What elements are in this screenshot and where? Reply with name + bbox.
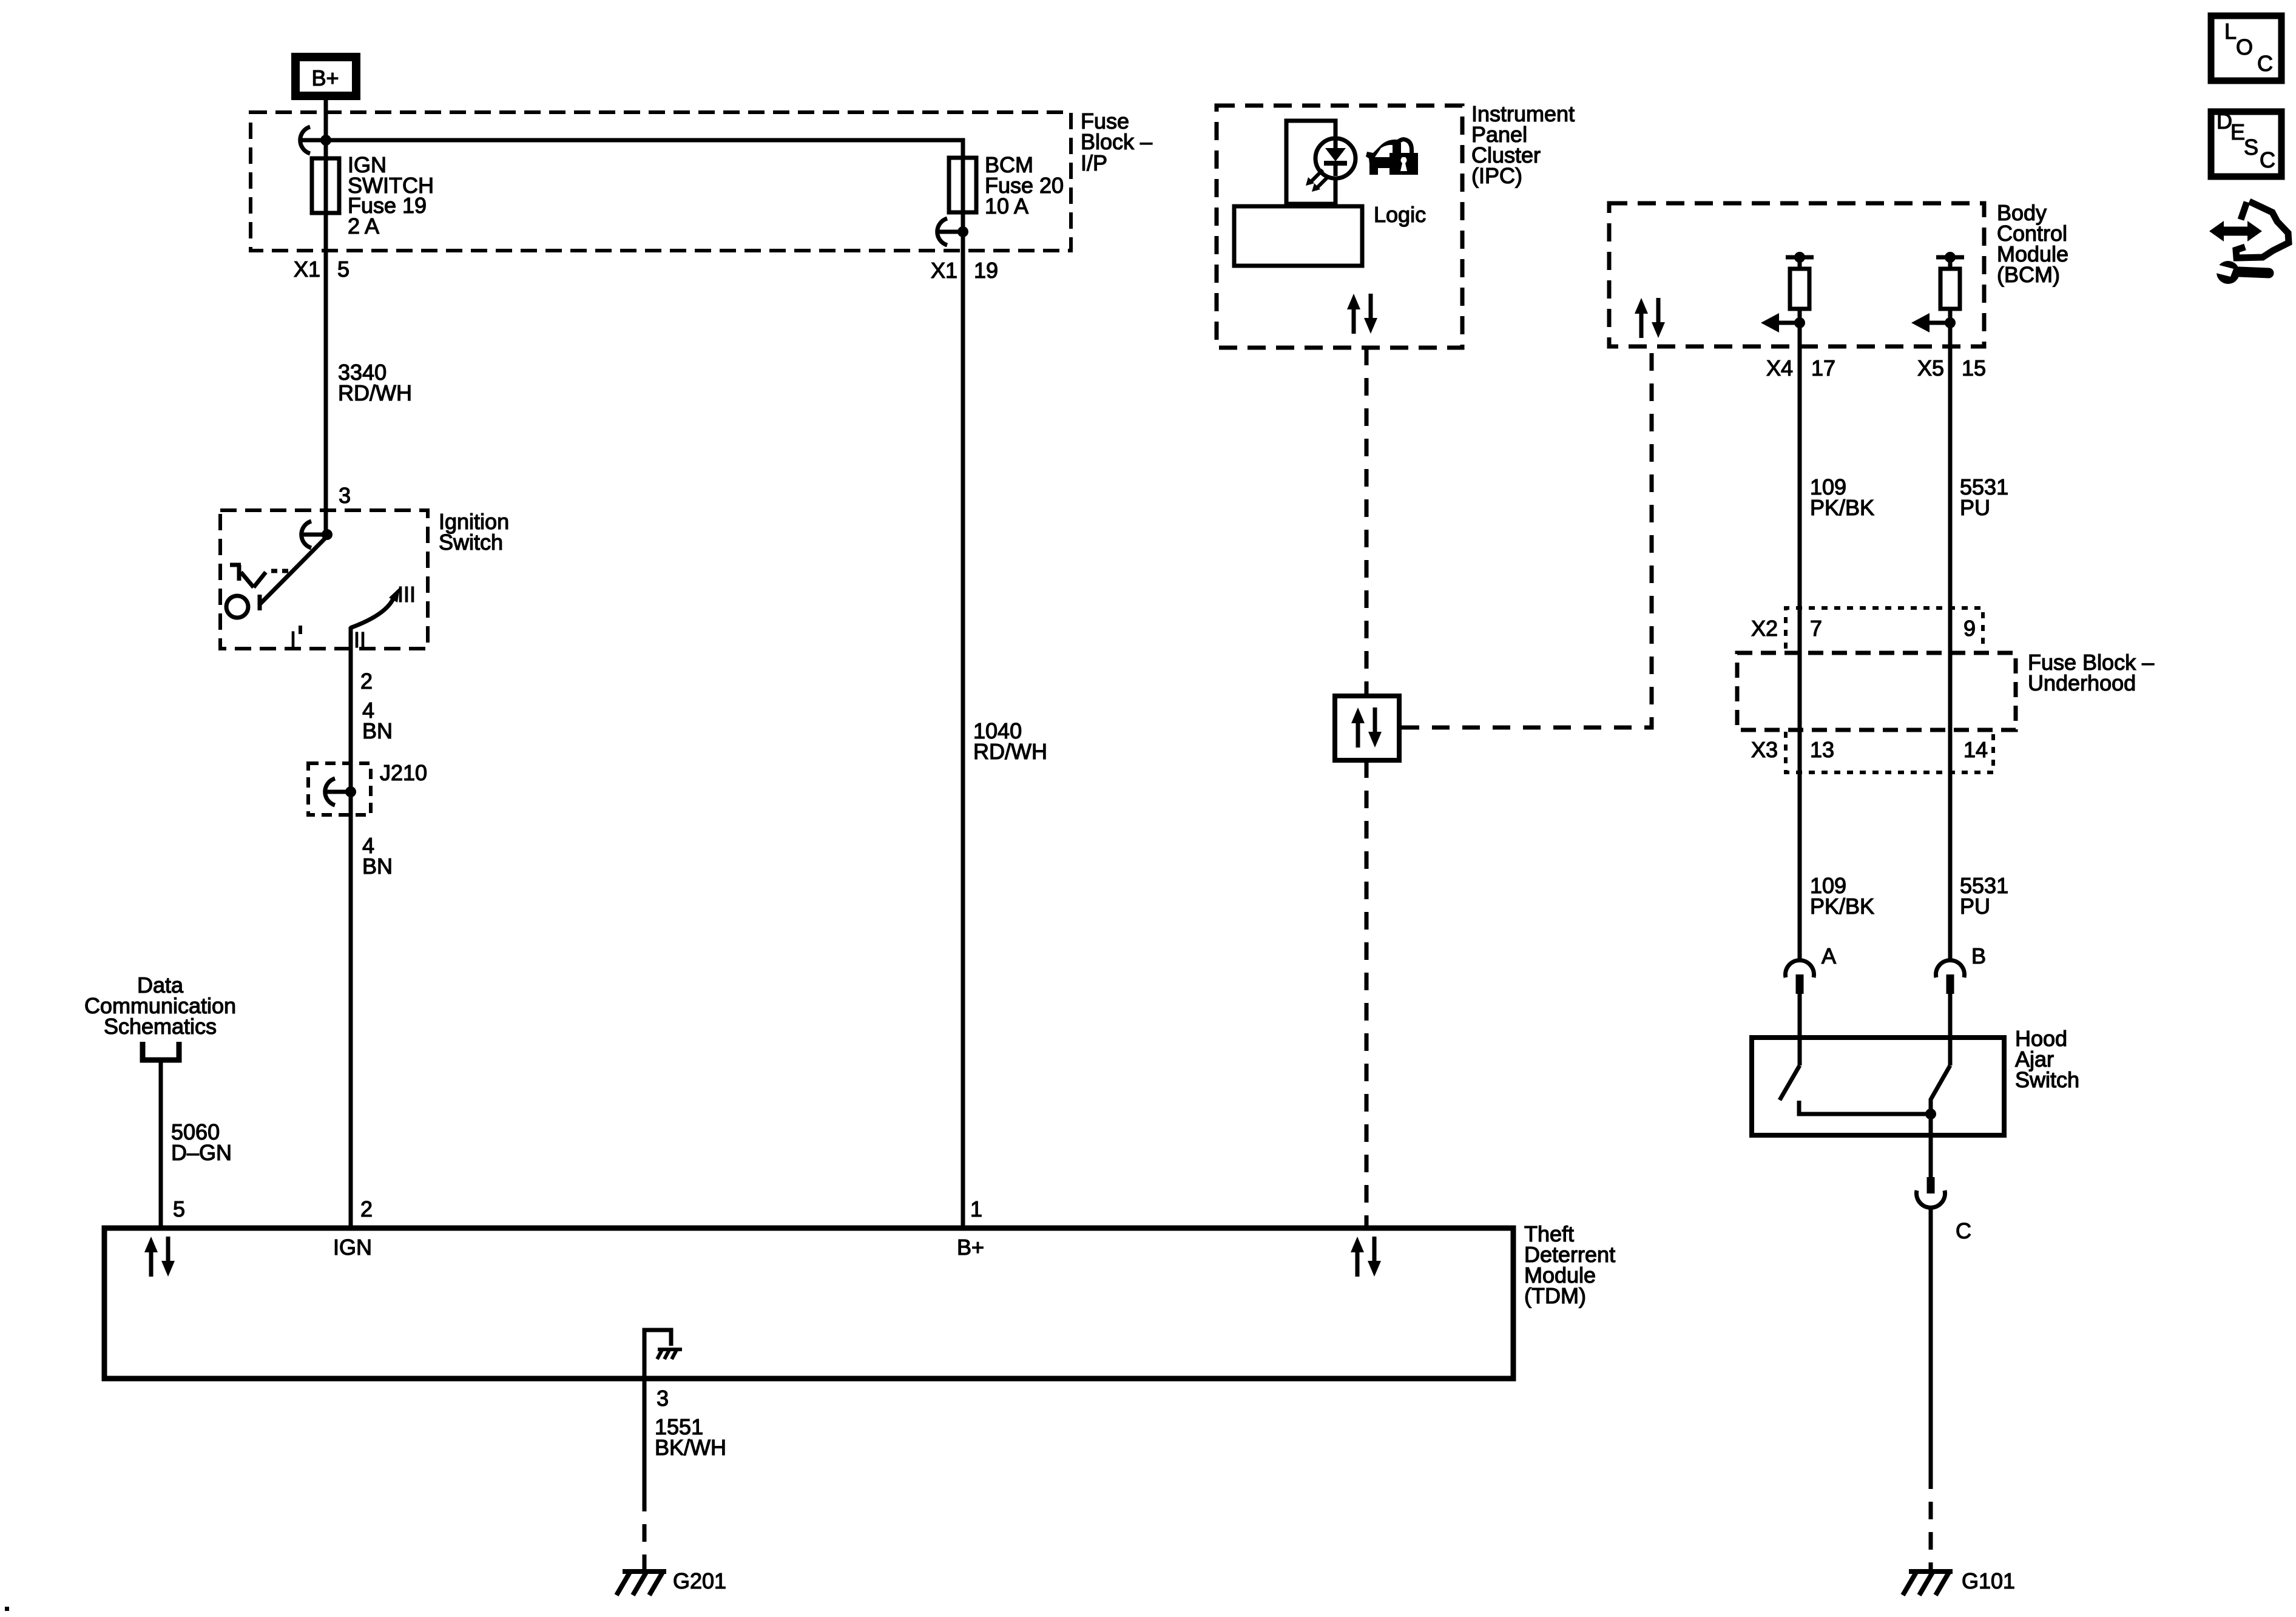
- ground G201: [616, 1570, 666, 1595]
- chassis ground symbol internal: [657, 1349, 682, 1359]
- svg-text:III: III: [397, 582, 416, 607]
- indicator housing: [1286, 121, 1335, 204]
- svg-text:5: 5: [173, 1197, 185, 1221]
- svg-text:G201: G201: [673, 1568, 726, 1593]
- svg-text:X2: X2: [1751, 616, 1778, 641]
- svg-text:5: 5: [337, 257, 349, 282]
- svg-text:J210: J210: [380, 760, 427, 785]
- svg-text:(TDM): (TDM): [1524, 1283, 1586, 1308]
- svg-text:X4: X4: [1766, 356, 1793, 380]
- svg-text:14: 14: [1963, 737, 1988, 762]
- svg-text:B: B: [1971, 944, 1986, 968]
- svg-text:C: C: [2257, 51, 2273, 76]
- Theft Deterrent Module box: [104, 1228, 1513, 1379]
- in-line connector at J210: [325, 778, 356, 805]
- svg-text:PK/BK: PK/BK: [1810, 495, 1874, 520]
- svg-text:3: 3: [339, 483, 351, 508]
- svg-text:C: C: [1956, 1218, 1971, 1243]
- svg-text:(IPC): (IPC): [1471, 163, 1522, 188]
- left switch blade (open): [1780, 1065, 1800, 1100]
- left fixed contact: [1799, 1101, 1931, 1114]
- Hood Ajar Switch box: [1752, 1038, 2004, 1135]
- svg-text:Switch: Switch: [439, 530, 503, 555]
- svg-text:B+: B+: [311, 66, 339, 90]
- wire 5060 D-GN down to TDM pin 5: [159, 1060, 163, 1226]
- svg-text:E: E: [2230, 120, 2245, 144]
- fuse IGN SWITCH Fuse 19 (wire through): [324, 140, 328, 258]
- svg-text:Underhood: Underhood: [2028, 670, 2136, 695]
- svg-text:S: S: [2244, 135, 2258, 160]
- serial data arrows left inside TDM: [144, 1237, 175, 1277]
- svg-text:(BCM): (BCM): [1997, 262, 2060, 287]
- svg-text:9: 9: [1963, 616, 1976, 641]
- svg-text:19: 19: [974, 258, 998, 283]
- wire from position II down through box: [349, 627, 353, 765]
- dashed serial data wire to BCM: [1402, 346, 1652, 727]
- wire through J210: [349, 763, 353, 1226]
- svg-text:C: C: [2260, 147, 2275, 172]
- svg-text:RD/WH: RD/WH: [973, 739, 1047, 764]
- ground G101: [1903, 1570, 1953, 1595]
- wire out of hood switch: [1929, 1114, 1933, 1178]
- svg-text:PK/BK: PK/BK: [1810, 894, 1874, 919]
- svg-text:2: 2: [360, 1197, 373, 1221]
- connector terminal B: [1936, 960, 1965, 994]
- security indicator LED: [1315, 138, 1356, 178]
- serial data node box: [1335, 696, 1399, 760]
- dashed serial data wire down to TDM: [1365, 760, 1369, 1226]
- svg-text:G101: G101: [1962, 1568, 2015, 1593]
- wire to G101: [1929, 1207, 1933, 1471]
- key symbol: [230, 565, 266, 587]
- svg-text:I: I: [290, 627, 296, 652]
- svg-text:10 A: 10 A: [985, 194, 1028, 218]
- switch blade from junction to key contact: [260, 536, 327, 604]
- right switch blade (closed): [1931, 1065, 1950, 1114]
- svg-text:2: 2: [360, 669, 373, 694]
- splice J210 dashed box: [308, 763, 371, 815]
- LED emission arrows: [1309, 170, 1329, 189]
- Instrument Panel Cluster dashed box: [1217, 106, 1462, 348]
- wires into hood switch: [1798, 993, 1802, 1065]
- svg-text:7: 7: [1810, 616, 1822, 641]
- svg-text:17: 17: [1811, 356, 1835, 380]
- wire B+ down to junction: [324, 100, 328, 140]
- in-line connector inside ignition switch: [302, 521, 333, 548]
- page artifact dot: [5, 1607, 9, 1611]
- svg-text:Logic: Logic: [1374, 202, 1426, 227]
- DESC reference box: [2211, 112, 2281, 177]
- svg-text:BN: BN: [362, 718, 393, 743]
- svg-text:PU: PU: [1960, 894, 1990, 919]
- svg-text:X1: X1: [931, 258, 957, 283]
- connector X3 dotted outline: [1786, 732, 1993, 772]
- in-line connector below BCM fuse: [937, 218, 968, 245]
- label Logic: [1234, 206, 1362, 266]
- vehicle security icon (car with padlock): [1366, 137, 1418, 175]
- wire 109 PK/BK to hood switch: [1798, 732, 1802, 962]
- svg-text:PU: PU: [1960, 495, 1990, 520]
- LOC reference box: [2211, 16, 2281, 81]
- serial data arrows inside IPC: [1347, 294, 1377, 334]
- signal arrow left: [1794, 317, 1805, 328]
- battery feed B+ box: [295, 57, 356, 96]
- wire 1551 BK/WH: [643, 1379, 647, 1494]
- svg-text:1: 1: [970, 1197, 982, 1221]
- svg-text:II: II: [354, 627, 366, 652]
- fuse BCM Fuse 20 (wire through): [961, 159, 965, 258]
- wire 3340 RD/WH down to ignition switch: [324, 258, 328, 536]
- Fuse Block - I/P dashed box: [251, 112, 1071, 251]
- in-line connector at IGN fuse junction: [300, 127, 331, 154]
- connector X2 dotted outline: [1786, 608, 1983, 649]
- rotation arc blade from II toward III with arrowhead: [350, 596, 394, 628]
- svg-text:A: A: [1822, 944, 1836, 968]
- pull-up resistor right inside BCM: [1936, 255, 1964, 260]
- signal arrow right: [1945, 317, 1956, 328]
- key cylinder circle: [226, 596, 248, 618]
- svg-text:O: O: [2236, 35, 2253, 59]
- Body Control Module dashed box: [1609, 203, 1984, 346]
- svg-text:IGN: IGN: [333, 1235, 372, 1260]
- svg-text:X3: X3: [1751, 737, 1778, 762]
- wire 5531 PU from BCM: [1948, 346, 1953, 732]
- svg-text:Schematics: Schematics: [104, 1014, 217, 1039]
- svg-text:BK/WH: BK/WH: [655, 1435, 726, 1460]
- svg-text:Switch: Switch: [2015, 1067, 2079, 1092]
- internal ground lead inside TDM: [644, 1330, 671, 1376]
- svg-text:L: L: [2224, 19, 2237, 44]
- svg-text:3: 3: [657, 1386, 669, 1411]
- connector terminal A: [1786, 960, 1814, 994]
- wire 1040 RD/WH down to TDM pin 1: [961, 258, 965, 1226]
- Fuse Block - Underhood dashed box: [1737, 653, 2016, 730]
- svg-text:BN: BN: [362, 854, 393, 879]
- serial data arrows right inside TDM: [1351, 1237, 1381, 1277]
- off-page bracket: [143, 1042, 179, 1060]
- svg-text:RD/WH: RD/WH: [338, 380, 412, 405]
- wire bus from junction to BCM fuse corner: [326, 140, 963, 159]
- svg-text:B+: B+: [957, 1235, 984, 1260]
- svg-text:2 A: 2 A: [348, 214, 379, 238]
- svg-text:13: 13: [1810, 737, 1834, 762]
- svg-text:D–GN: D–GN: [171, 1140, 232, 1165]
- wire 5531 PU to hood switch: [1948, 732, 1953, 962]
- dashed serial data wire from IPC down: [1365, 348, 1369, 696]
- junction dot hood switch: [1925, 1109, 1936, 1119]
- wire 109 PK/BK from BCM: [1798, 346, 1802, 732]
- svg-text:X5: X5: [1917, 356, 1944, 380]
- serial data arrows inside BCM: [1635, 298, 1665, 338]
- svg-text:I/P: I/P: [1081, 150, 1107, 175]
- svg-text:X1: X1: [294, 257, 320, 282]
- connector terminal C: [1927, 1177, 1935, 1193]
- service action icon (arrow hand wrench): [2236, 201, 2289, 258]
- svg-text:15: 15: [1962, 356, 1986, 380]
- Ignition Switch dashed box: [220, 510, 428, 649]
- pull-up resistor left inside BCM: [1786, 255, 1814, 260]
